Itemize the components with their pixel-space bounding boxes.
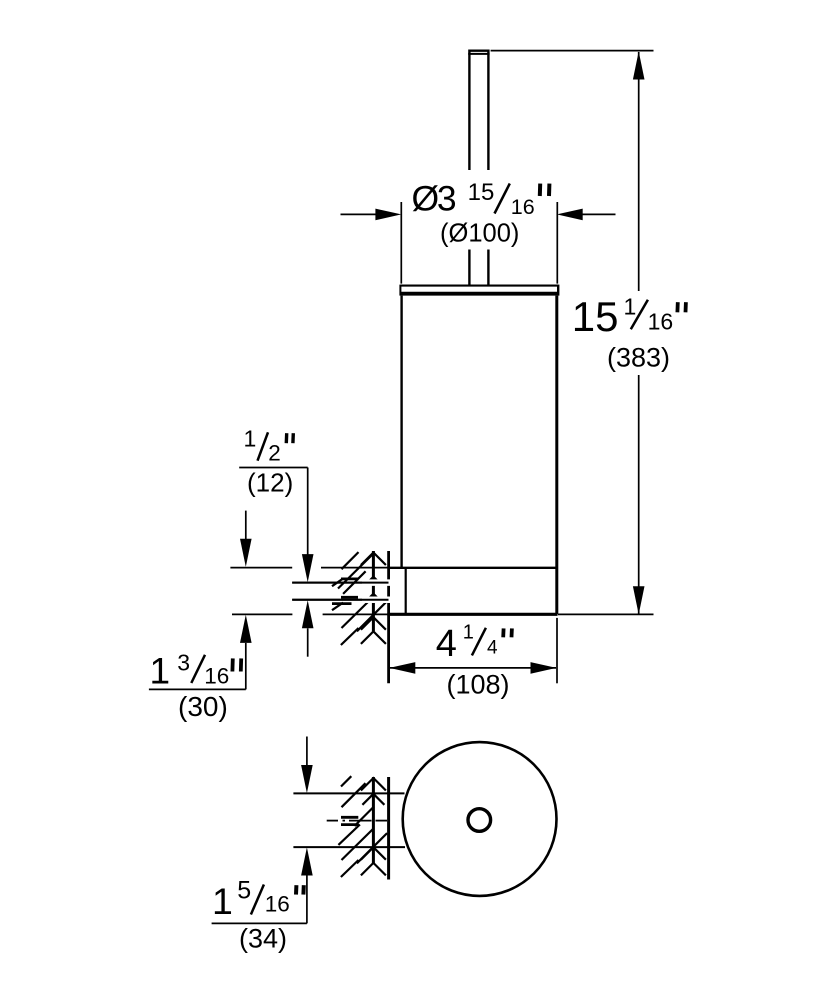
dimension 1 3/16 (30) — [149, 511, 252, 690]
svg-text:1: 1 — [150, 650, 171, 691]
glass body / holder right edge — [555, 296, 558, 615]
svg-text:1: 1 — [212, 880, 233, 922]
extension line top (rod top to height dim) — [491, 50, 654, 52]
dim text 4 1/4" — [436, 622, 512, 666]
svg-text:2: 2 — [268, 441, 281, 466]
wall symbol side view — [332, 551, 387, 645]
svg-text:Ø3: Ø3 — [412, 179, 456, 219]
plate lines over wall with halo — [362, 579, 390, 586]
svg-text:4: 4 — [436, 623, 457, 665]
svg-text:16: 16 — [648, 309, 674, 335]
dim text 1/2" — [244, 425, 294, 465]
center line dash-dot — [327, 820, 387, 822]
glass rim — [400, 285, 558, 296]
holder left edge / wall face / extension down — [387, 551, 390, 683]
screw hole — [468, 809, 491, 832]
mounting plate lines — [292, 582, 388, 584]
glass body left edge — [400, 296, 402, 568]
svg-text:16: 16 — [204, 663, 229, 688]
holder top — [389, 567, 557, 569]
dimension 1/2 (12) — [239, 468, 313, 657]
left extension lines at holder top y=567.6 — [230, 567, 292, 569]
mounting plate lines bottom view — [293, 792, 404, 794]
svg-text:(Ø100): (Ø100) — [440, 220, 519, 248]
holder inner line — [405, 569, 407, 614]
svg-text:4: 4 — [487, 638, 498, 659]
svg-text:15: 15 — [468, 179, 495, 206]
dimension 1 5/16 (34) — [212, 737, 313, 924]
svg-text:(108): (108) — [447, 670, 510, 700]
svg-text:15: 15 — [572, 293, 619, 340]
dim text 1 3/16" — [150, 650, 242, 692]
svg-text:3: 3 — [177, 650, 190, 676]
svg-text:16: 16 — [265, 892, 290, 917]
brush handle rod — [468, 51, 489, 285]
extension line bottom right (holder bottom to height dim) — [558, 613, 654, 615]
dim text 15 1/16" — [572, 293, 686, 340]
wall symbol bottom view — [338, 776, 388, 879]
diameter dim lines — [341, 202, 616, 284]
holder circle — [403, 742, 557, 896]
left extension lines at holder bottom y=614.4 — [232, 613, 292, 615]
svg-text:16: 16 — [511, 195, 535, 219]
svg-text:(30): (30) — [178, 691, 228, 722]
svg-text:1: 1 — [463, 622, 474, 644]
svg-text:(34): (34) — [239, 924, 287, 954]
holder bottom — [387, 613, 557, 616]
svg-text:(12): (12) — [247, 468, 293, 498]
width dimension 4 1/4 — [389, 618, 557, 683]
height dimension line 15 1/16 — [633, 51, 645, 614]
dim text D3 15/16" — [412, 179, 550, 220]
svg-text:1: 1 — [624, 294, 637, 320]
svg-text:5: 5 — [237, 877, 251, 905]
svg-text:(383): (383) — [607, 343, 670, 373]
white halo behind diameter text — [460, 170, 552, 250]
dim text 1 5/16" — [212, 877, 304, 922]
svg-text:1: 1 — [244, 425, 257, 451]
